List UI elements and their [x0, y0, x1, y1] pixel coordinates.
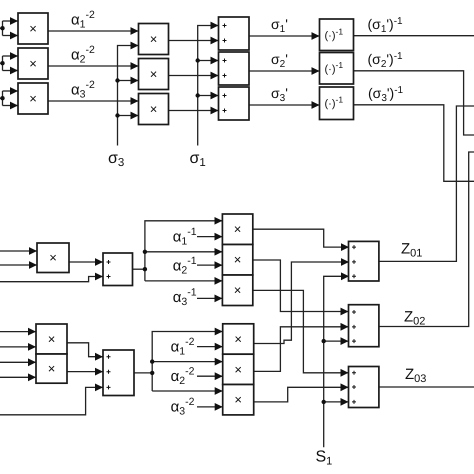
svg-text:σ3': σ3' — [271, 85, 288, 104]
svg-text:σ3: σ3 — [108, 150, 124, 169]
product block P53 — [223, 385, 254, 415]
sum block Z3 — [349, 367, 379, 408]
net sigma1 vertical distribution — [196, 26, 219, 146]
svg-text:(σ3')-1: (σ3')-1 — [368, 85, 404, 104]
svg-text:×: × — [29, 91, 37, 106]
wire output Z01 routed up to right edge — [379, 106, 474, 261]
svg-text:×: × — [48, 332, 56, 347]
wire input tree to product P13 — [0, 91, 18, 106]
product block P12 — [18, 48, 48, 79]
svg-text:×: × — [49, 250, 57, 265]
svg-text:α3-2: α3-2 — [171, 396, 195, 418]
wire input tree to product P12 — [0, 56, 18, 71]
sum block A2 — [103, 350, 134, 396]
svg-text:α1-1: α1-1 — [173, 226, 197, 248]
wire P31 to sum Z01 input 1 — [253, 229, 349, 247]
product block P42 — [36, 354, 67, 383]
svg-text:Z03: Z03 — [405, 366, 426, 385]
svg-text:×: × — [150, 32, 158, 47]
svg-text:α3-2: α3-2 — [71, 79, 95, 101]
svg-text:σ1: σ1 — [190, 150, 206, 169]
wire alpha2^-2 constant into P52 — [197, 375, 223, 377]
svg-text:×: × — [234, 283, 242, 298]
svg-text:Z02: Z02 — [404, 309, 425, 328]
wire output (sigma3')^-1 routed right and down — [354, 105, 474, 182]
wire P41 to sum A2 input 1 — [67, 343, 103, 357]
wire sum A1 output to distribution node — [133, 268, 145, 270]
product block P21 — [139, 24, 169, 55]
product block M1 — [37, 243, 69, 273]
sum block A1 — [103, 253, 133, 286]
wire P32 to sum Z02 input 1 — [253, 260, 349, 312]
sum block A31 — [219, 17, 250, 50]
inverse block I42 — [320, 53, 354, 85]
wire output (sigma2')^-1 routed right and down — [354, 71, 474, 135]
plus marks of sum blocks — [107, 24, 357, 404]
wire input 3 to product P42 — [0, 361, 36, 363]
product block P22 — [139, 59, 169, 90]
wire P12 to P22 (alpha2^-2) — [48, 65, 139, 67]
svg-text:×: × — [234, 252, 242, 267]
wire P13 to P23 (alpha3^-2) — [48, 100, 139, 102]
svg-text:α2-1: α2-1 — [173, 255, 197, 277]
wire P11 to P21 (alpha1^-2) — [48, 30, 139, 32]
product block P52 — [223, 354, 254, 384]
svg-text:×: × — [29, 56, 37, 71]
net distribution vertical to products P31-P33 — [143, 221, 223, 281]
svg-text:α1-2: α1-2 — [171, 336, 195, 358]
wire input tree to product P11 — [0, 21, 18, 36]
wire output Z03 to right edge — [379, 386, 474, 388]
wire input 1 to product P41 — [0, 331, 36, 333]
svg-text:α2-2: α2-2 — [71, 44, 95, 66]
wire P52 to sum Z02 input 2 (riser) — [254, 327, 349, 372]
sum block A33 — [219, 87, 250, 120]
wire input 1 to product M1 — [0, 250, 37, 252]
wire alpha3^-2 constant into P53 — [197, 406, 223, 408]
wire P42 to sum A2 input 2 — [67, 371, 103, 373]
inverse block I41 — [320, 19, 354, 51]
wire output (sigma1')^-1 to right edge — [354, 35, 474, 37]
wire P53 to sum Z03 input 2 (riser) — [254, 387, 349, 402]
net sigma3 vertical distribution — [115, 46, 138, 146]
product block P51 — [223, 324, 254, 354]
sum block A32 — [219, 52, 250, 85]
product block P31 — [222, 214, 252, 245]
product block P32 — [222, 245, 252, 276]
svg-text:×: × — [234, 362, 242, 377]
wire input 4 to product P42 — [0, 376, 36, 378]
x symbols of product blocks — [29, 21, 242, 407]
wire alpha1^-2 constant into P51 — [197, 346, 223, 348]
inverse block labels (.)^-1 — [325, 27, 344, 111]
wire product M1 to sum A1 — [69, 261, 103, 263]
svg-text:×: × — [150, 67, 158, 82]
svg-text:α3-1: α3-1 — [173, 287, 197, 309]
wire P23 to sum A33 — [169, 110, 219, 112]
wire alpha1^-1 constant into P31 — [197, 236, 222, 238]
svg-text:S1: S1 — [316, 449, 333, 468]
wire P33 to sum Z03 input 1 — [253, 290, 349, 372]
wire P51 to sum Z01 input 2 (zigzag riser) — [254, 262, 349, 344]
svg-text:×: × — [234, 332, 242, 347]
wire sum A33 to inverse I43 (sigma3') — [249, 104, 320, 106]
svg-text:α1-2: α1-2 — [71, 9, 95, 31]
svg-text:×: × — [48, 361, 56, 376]
sum block Z2 — [349, 305, 379, 347]
net S1 vertical distribution — [322, 276, 350, 447]
wire sum A2 output to distribution node — [134, 372, 152, 374]
svg-text:σ1': σ1' — [271, 16, 288, 35]
wire input 2 to product P41 — [0, 346, 36, 348]
wire alpha3^-1 constant into P33 — [197, 297, 222, 299]
product block P13 — [18, 83, 48, 114]
wire input 3 to sum A1 (lower jog) — [0, 277, 103, 282]
wire P22 to sum A32 — [169, 75, 219, 77]
svg-text:×: × — [29, 21, 37, 36]
wire input 2 to product M1 — [0, 264, 37, 266]
wire P21 to sum A31 — [169, 40, 219, 42]
svg-text:Z01: Z01 — [401, 241, 422, 260]
svg-text:α2-2: α2-2 — [171, 366, 195, 388]
wire alpha2^-1 constant into P32 — [197, 264, 222, 266]
wire output Z02 routed up to right edge — [379, 152, 474, 327]
sum block Z1 — [349, 241, 379, 281]
svg-text:(σ1')-1: (σ1')-1 — [368, 16, 404, 35]
svg-text:σ2': σ2' — [271, 51, 288, 70]
product block P11 — [18, 13, 48, 44]
svg-text:×: × — [234, 392, 242, 407]
svg-text:×: × — [234, 222, 242, 237]
svg-text:×: × — [150, 102, 158, 117]
product block P41 — [36, 324, 67, 354]
wire input 5 to sum A2 input 3 (bottom jog) — [0, 387, 103, 414]
net distribution vertical to products P51-P53 — [150, 332, 223, 392]
product block P33 — [222, 275, 252, 306]
svg-text:(σ2')-1: (σ2')-1 — [368, 51, 404, 70]
product block P23 — [139, 94, 169, 125]
wire sum A31 to inverse I41 (sigma1') — [249, 35, 320, 37]
wire sum A32 to inverse I42 (sigma2') — [249, 70, 320, 72]
inverse block I43 — [320, 87, 354, 120]
